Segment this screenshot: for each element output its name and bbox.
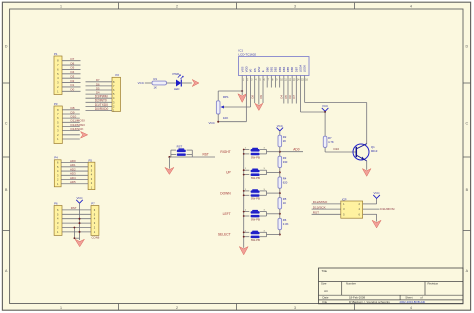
net label D4 (280, 95, 284, 99)
svg-text:D13/SCK: D13/SCK (313, 205, 327, 209)
wire LEFT button to ladder node (267, 213, 280, 215)
wire AD4 between P4 and P5 (61, 179, 88, 181)
svg-text:SW-PB: SW-PB (251, 155, 260, 159)
wire LCD pin5 (R/W) to ground (258, 80, 260, 105)
wire power header row 3 (62, 218, 91, 220)
pushbutton RIGHT SW-PB (244, 148, 267, 160)
junction LEFT at bus (243, 211, 245, 217)
net label D12/MISO (71, 123, 86, 127)
wire P3 pin 1 (62, 138, 80, 140)
wire RIGHT button to ladder node (267, 151, 280, 153)
svg-text:VCC: VCC (138, 81, 145, 85)
svg-text:P7: P7 (91, 201, 95, 205)
svg-text:SW-PB: SW-PB (251, 217, 260, 221)
svg-text:2K: 2K (283, 139, 287, 143)
svg-text:3.3K: 3.3K (283, 222, 289, 226)
wire LCD pin13 (DB6) (291, 80, 293, 104)
connector P2 (digital D0-D7 header, right) (112, 73, 121, 112)
net label D10 (71, 114, 77, 118)
svg-text:Sheet: Sheet (405, 296, 413, 300)
svg-text:LED: LED (174, 87, 179, 91)
junction DOWN at bus (243, 190, 245, 196)
net label D5 (284, 95, 288, 99)
net label D10 (334, 147, 340, 151)
net label LEFT (223, 212, 231, 216)
resistor R4 620 (278, 177, 288, 189)
resistor R3 330 (278, 156, 288, 168)
wire P1 pin 2 (62, 86, 81, 88)
net label SELECT (218, 233, 231, 237)
svg-text:D7: D7 (96, 78, 100, 82)
junction ladder node LEFT (279, 213, 281, 215)
net label RST (203, 152, 209, 156)
wire P2 pin 5 (86, 93, 113, 95)
wire SELECT button to ladder node (267, 234, 280, 236)
wire LCD pin2 (VDD) to VCC net (245, 80, 247, 122)
net label D0 (71, 88, 75, 92)
svg-text:LEDK: LEDK (303, 65, 307, 72)
ground at LCD pin5 (255, 103, 263, 110)
ground at Q1 emitter (362, 169, 371, 177)
wire LCD pin11 (DB4) (283, 80, 285, 104)
svg-text:RST: RST (177, 144, 183, 148)
net label AD2 (70, 167, 76, 171)
svg-text:1: 1 (60, 306, 62, 310)
wire LCD pin9 (DB2) stub (275, 80, 277, 88)
wire LCD pin16 (LEDK) to Q1 collector (305, 80, 367, 144)
connector P1 (digital D0-D7 header) (54, 52, 62, 95)
svg-text:A4: A4 (324, 289, 328, 293)
ground at button bus (239, 247, 248, 255)
svg-text:LEFT: LEFT (223, 212, 231, 216)
svg-text:DOWN: DOWN (220, 191, 231, 195)
net label AD4 (70, 176, 76, 180)
net label D11/MOSI (71, 119, 85, 123)
svg-text:4: 4 (410, 5, 412, 9)
wire P2 pin 8 (86, 81, 113, 83)
svg-text:330: 330 (283, 160, 288, 164)
junction SELECT at bus (243, 231, 245, 237)
svg-text:18-Feb-2008: 18-Feb-2008 (349, 296, 365, 300)
svg-text:D:\Backup\..\..\Cerebot schwor: D:\Backup\..\..\Cerebot schworks (349, 300, 390, 304)
wire LCD pin6 (E) (262, 80, 264, 104)
svg-text:VCC: VCC (322, 104, 328, 108)
svg-text:SW-PB: SW-PB (251, 197, 260, 201)
wire pot wiper to LCD pin3 (224, 106, 251, 108)
net label D9 (71, 110, 75, 114)
wire Q1 emitter to ground (366, 161, 368, 170)
wire P3 pin 3 (62, 130, 80, 132)
net label AD1 (70, 163, 76, 167)
resistor R5 1K (278, 197, 287, 209)
connector P5 (analog header right) (88, 158, 95, 189)
svg-text:620: 620 (283, 181, 288, 185)
wire ICSP pin 5 (312, 213, 341, 215)
wire P2 pin 7 (86, 85, 113, 87)
wire P1 pin 4 (62, 77, 81, 79)
wire ground stub power header (74, 228, 79, 239)
svg-text:RST: RST (313, 211, 319, 215)
resistor R7 4.7K (323, 136, 334, 148)
wire LCD pin4 (RS) (254, 80, 256, 104)
svg-text:D6: D6 (96, 82, 100, 86)
wire VCC stem through power header (79, 203, 81, 240)
net label DOWN (220, 191, 231, 195)
svg-text:AD0: AD0 (293, 148, 299, 152)
svg-text:RP1: RP1 (223, 95, 229, 99)
net label D5 (96, 86, 100, 90)
svg-text:D: D (465, 45, 468, 49)
wire P3 pin 7 (62, 113, 80, 115)
pushbutton LEFT SW-PB (244, 210, 267, 222)
resistor R1 1K (152, 77, 167, 90)
pushbutton SELECT SW-PB (244, 230, 267, 242)
net label D6 (96, 82, 100, 86)
svg-text:D12/MISO: D12/MISO (313, 200, 328, 204)
wire UP button to ladder node (267, 171, 280, 173)
wire VCC junction to R7 (324, 112, 326, 136)
wire LCD pin1 (VSS) to ground (241, 80, 243, 96)
wire P3 pin 8 (62, 109, 80, 111)
junction RIGHT at bus (243, 149, 245, 155)
junction ladder node DOWN (279, 192, 281, 194)
ground at power header (75, 239, 84, 246)
wire power header row 5 (62, 227, 91, 229)
svg-text:1: 1 (60, 5, 62, 9)
svg-text:UP: UP (226, 171, 231, 175)
wire power header row 4 (62, 222, 91, 224)
svg-text:P6: P6 (54, 201, 58, 205)
wire DOWN button to ladder node (267, 192, 280, 194)
wire RST button to RST net (169, 156, 215, 158)
net label D3/PWM (95, 95, 108, 99)
wire button common bus to ground (243, 150, 245, 248)
svg-text:1K: 1K (283, 201, 287, 205)
wire P1 pin 7 (62, 64, 81, 66)
net label D5 (71, 66, 75, 70)
wire R1 to LED (167, 82, 177, 84)
junction ground stub (74, 227, 76, 240)
svg-text:SELECT: SELECT (218, 233, 231, 237)
svg-text:2: 2 (176, 306, 178, 310)
net label D7 (96, 78, 100, 82)
svg-text:RIGHT: RIGHT (220, 150, 230, 154)
net label RST (313, 211, 319, 215)
svg-text:P3: P3 (54, 102, 58, 106)
svg-text:VCC: VCC (374, 191, 380, 195)
wire AD0 from ladder node (280, 151, 303, 153)
svg-text:LCD-TC1602: LCD-TC1602 (238, 52, 256, 56)
transistor Q1 9013 (353, 144, 378, 161)
wire LCD pin14 (DB7) (295, 80, 297, 104)
wire AD2 between P4 and P5 (61, 170, 88, 172)
net label D7 (71, 57, 75, 61)
svg-text:P1: P1 (54, 52, 58, 56)
LED PWR (173, 72, 184, 91)
svg-text:D5: D5 (96, 86, 100, 90)
net label D13/SCK (71, 127, 85, 131)
svg-text:of: of (420, 296, 423, 300)
wire LCD pin10 (DB3) stub (279, 80, 281, 88)
power port VCC (pot bottom) (208, 121, 215, 125)
ground at RST button (165, 167, 174, 174)
net label D13/SCK (313, 205, 327, 209)
power arrow VCC on P3 pin 2 (81, 132, 88, 139)
net label D6 (71, 61, 75, 65)
svg-text:File: File (323, 300, 328, 304)
svg-text:ICP: ICP (342, 197, 347, 201)
svg-text:C: C (5, 122, 8, 126)
wire ICSP pin 1 (312, 203, 341, 205)
svg-text:D13/SCK: D13/SCK (71, 127, 85, 131)
wire LCD pin8 (DB1) stub (270, 80, 272, 88)
net label D9 (LCD E) (259, 95, 263, 99)
svg-text:Revision: Revision (428, 281, 439, 285)
wire LED to power arrow (181, 82, 192, 84)
net label D6 (288, 95, 292, 99)
wire LCD pin7 (DB0) stub (266, 80, 268, 88)
wire ICSP pin4 (D11/MOSI) (363, 208, 380, 210)
net label D1 (71, 83, 75, 87)
LCD module IC1 LCD-TC1602 (238, 48, 309, 81)
svg-text:Title: Title (322, 269, 328, 273)
svg-text:10K: 10K (223, 116, 228, 120)
resistor R2 2K (278, 135, 287, 147)
svg-text:RST: RST (71, 206, 77, 210)
net label D7 (292, 95, 296, 99)
net label D1/TXD0 (95, 103, 108, 107)
svg-text:D8: D8 (250, 95, 254, 99)
power port VCC above R2 (277, 124, 284, 131)
junction at pot bottom VCC (217, 121, 219, 123)
svg-text:Number: Number (346, 281, 356, 285)
svg-text:VCC: VCC (277, 124, 283, 128)
net label D11/MOSI (380, 207, 394, 211)
svg-text:C: C (465, 122, 468, 126)
wire P3 pin 5 (62, 121, 80, 123)
wire P2 pin 4 (86, 97, 113, 99)
pushbutton RST SW-PB (171, 144, 192, 157)
wire P1 pin 8 (62, 60, 81, 62)
potentiometer RP1 10K (216, 95, 229, 120)
junction ladder node RIGHT (279, 151, 281, 153)
net label AD0 (70, 159, 76, 163)
junction ladder node UP (279, 171, 281, 173)
net label RIGHT (220, 150, 230, 154)
svg-text:9013: 9013 (371, 149, 378, 153)
svg-text:2: 2 (176, 5, 178, 9)
connector P6 (power header left) (54, 201, 62, 235)
wire LCD pin15 (LEDA) to VCC junction (300, 80, 325, 113)
net label D0/RXD0 (95, 107, 109, 111)
ground at ICSP (372, 220, 381, 228)
svg-text:D10: D10 (334, 147, 340, 151)
svg-text:SW-PB: SW-PB (251, 176, 260, 180)
title block (319, 268, 464, 304)
net label D3 (71, 74, 75, 78)
junctions on power header stem (79, 218, 81, 233)
net label D8 (LCD RS) (250, 95, 254, 99)
wire resistor ladder segments (279, 147, 281, 235)
wire AD1 between P4 and P5 (61, 166, 88, 168)
wire P1 pin 6 (62, 68, 81, 70)
wire P2 pin 6 (86, 89, 113, 91)
wire P3 pin 4 (62, 125, 80, 127)
wire LCD pin3 (V0) to pot wiper (250, 80, 252, 108)
svg-text:4.7K: 4.7K (328, 140, 334, 144)
power port VCC (power header) (76, 196, 83, 203)
power arrow +5V (LED branch) (192, 80, 199, 87)
wire ICSP pin2 to VCC (363, 198, 377, 204)
connector P4 (analog header left) (54, 156, 61, 187)
svg-text:D7: D7 (292, 95, 296, 99)
wire pot top to LCD pin1 net (218, 91, 242, 101)
svg-text:RST: RST (203, 152, 209, 156)
wire LCD pin12 (DB5) (287, 80, 289, 104)
svg-text:P2: P2 (116, 73, 120, 77)
connector P3 (digital D8-D13 header) (54, 102, 62, 144)
wire RST button to ground (168, 157, 170, 169)
net label AD0 (293, 148, 299, 152)
svg-text:AD5: AD5 (70, 180, 76, 184)
svg-text:SW-PB: SW-PB (251, 238, 260, 242)
wire P2 pin 3 (86, 101, 113, 103)
wire power header row 6 (62, 231, 91, 233)
resistor R6 3.3K (278, 218, 289, 230)
wire P3 pin 2 (62, 134, 80, 136)
svg-text:D0/RXD0: D0/RXD0 (95, 107, 109, 111)
power port VCC (ICSP) (373, 191, 380, 198)
svg-text:VCC: VCC (208, 121, 215, 125)
net label D12/MISO (313, 200, 328, 204)
net label AD5 (70, 180, 76, 184)
svg-text:Date: Date (323, 296, 329, 300)
svg-text:P4: P4 (54, 156, 58, 160)
wire R7 to Q1 base (net D10) (325, 148, 356, 153)
junction ladder node SELECT (279, 234, 281, 236)
junction UP at bus (243, 169, 245, 175)
wire P1 pin 3 (62, 82, 81, 84)
net label UP (226, 171, 231, 175)
power port VCC above R7 (322, 104, 329, 111)
net label D2/INT0 (95, 99, 107, 103)
pushbutton DOWN SW-PB (244, 189, 267, 201)
wire AD3 between P4 and P5 (61, 174, 88, 176)
junction RST button left (168, 156, 170, 158)
wire P1 pin 1 (62, 90, 81, 92)
net label D8 (71, 106, 75, 110)
svg-text:3: 3 (294, 306, 296, 310)
svg-text:CON6: CON6 (92, 235, 100, 239)
svg-text:4: 4 (410, 306, 412, 310)
wire P2 pin 2 (86, 105, 113, 107)
svg-text:D0: D0 (71, 88, 75, 92)
connector P7 (power header right) (91, 201, 100, 239)
wire power header row 2 (62, 213, 91, 215)
net label AD3 (70, 172, 76, 176)
junction at VCC / R7 top (324, 111, 326, 113)
wire VCC to R2 (279, 131, 281, 135)
net label RST (power header) (71, 206, 77, 210)
net label D4 (71, 70, 75, 74)
svg-text:P5: P5 (89, 158, 93, 162)
svg-text:D11/MOSI: D11/MOSI (380, 207, 394, 211)
svg-text:D: D (5, 45, 8, 49)
wire power header row 1 (62, 209, 91, 211)
power port VCC (LED branch) (138, 81, 145, 85)
wire P3 pin 6 (62, 117, 80, 119)
svg-text:Size: Size (321, 281, 327, 285)
wire ICSP pin6 to ground (363, 214, 377, 221)
wire P1 pin 5 (62, 73, 81, 75)
net label D2 (71, 79, 75, 83)
wire P2 pin 1 (86, 110, 113, 112)
junction at LCD pin1 / pot top (241, 90, 243, 92)
svg-text:1K: 1K (154, 86, 158, 90)
wire AD5 between P4 and P5 (61, 183, 88, 185)
wire VCC to R1 (145, 82, 152, 84)
ground at LCD pin1 (238, 94, 247, 103)
svg-text:2002-2004-BOB.ddb: 2002-2004-BOB.ddb (400, 300, 426, 304)
svg-text:PWR: PWR (173, 72, 180, 76)
pushbutton UP SW-PB (244, 168, 267, 180)
wire pot bottom to VCC net / LCD pin2 (218, 114, 246, 122)
connector ICSP (2x3 header) (341, 197, 363, 218)
wire ICSP pin 3 (312, 208, 341, 210)
svg-text:D9: D9 (259, 95, 263, 99)
svg-text:3: 3 (294, 5, 296, 9)
svg-text:R1: R1 (154, 77, 158, 81)
net label D4 (96, 91, 100, 95)
svg-text:VCC: VCC (76, 196, 82, 200)
wire AD0 between P4 and P5 (61, 162, 88, 164)
